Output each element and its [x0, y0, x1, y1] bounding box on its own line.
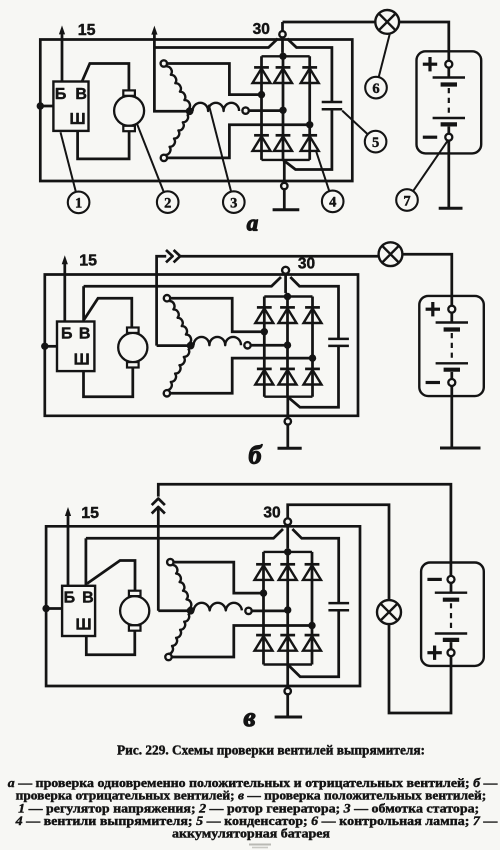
- svg-text:15: 15: [78, 22, 96, 39]
- svg-text:б: б: [249, 441, 263, 470]
- svg-text:Ш: Ш: [76, 617, 92, 634]
- svg-text:а: а: [247, 211, 259, 236]
- svg-text:5: 5: [372, 135, 379, 151]
- svg-text:15: 15: [81, 505, 99, 522]
- svg-text:7: 7: [403, 193, 410, 209]
- svg-text:3: 3: [230, 195, 237, 211]
- svg-text:В: В: [79, 326, 91, 343]
- svg-text:30: 30: [298, 256, 315, 273]
- svg-text:В: В: [75, 86, 87, 103]
- svg-text:Б: Б: [64, 590, 76, 607]
- svg-text:в: в: [243, 702, 255, 732]
- svg-text:15: 15: [79, 252, 97, 269]
- svg-text:аккумуляторная батарея: аккумуляторная батарея: [172, 826, 330, 841]
- svg-text:30: 30: [263, 505, 280, 522]
- svg-text:Ш: Ш: [74, 352, 90, 369]
- svg-text:В: В: [82, 590, 94, 607]
- svg-text:30: 30: [253, 21, 270, 38]
- svg-text:4: 4: [329, 195, 336, 211]
- svg-text:6: 6: [372, 81, 379, 97]
- svg-text:Ш: Ш: [69, 111, 85, 128]
- svg-text:1: 1: [75, 196, 82, 212]
- svg-text:Б: Б: [55, 86, 67, 103]
- svg-text:Б: Б: [61, 326, 73, 343]
- svg-text:2: 2: [164, 195, 171, 211]
- svg-text:Рис. 229. Схемы проверки венти: Рис. 229. Схемы проверки вентилей выпрям…: [117, 743, 425, 758]
